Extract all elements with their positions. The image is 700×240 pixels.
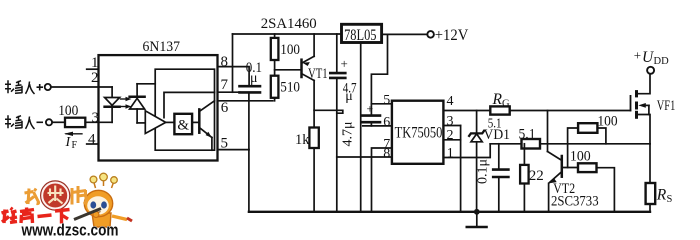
wire TK pin3 <box>443 125 460 127</box>
wire amp to AND gate <box>166 121 175 123</box>
svg-text:78L05: 78L05 <box>344 27 377 44</box>
svg-text:6: 6 <box>221 100 229 116</box>
opto 6N137 outer box <box>99 55 218 160</box>
svg-text:F: F <box>72 140 78 151</box>
light arrows <box>121 97 132 109</box>
svg-text:VF1: VF1 <box>657 98 676 114</box>
resistor 100 (VT1 bias upper) <box>271 34 279 76</box>
svg-text:1: 1 <box>447 146 454 161</box>
svg-text:1: 1 <box>91 55 99 71</box>
wire cap bottom to pin5 line <box>248 92 250 149</box>
opto output transistor <box>199 101 214 150</box>
watermark logo <box>2 173 133 239</box>
svg-text:100: 100 <box>280 42 300 58</box>
watermark mascot <box>74 173 132 227</box>
feedback wire <box>164 92 215 117</box>
wire 12V drop to TK pin5 <box>371 34 387 115</box>
wire pin6 to 510 <box>218 100 273 102</box>
wire pin8 right <box>218 67 250 85</box>
svg-text:4.7μ: 4.7μ <box>341 121 356 146</box>
label input- (drawn glyphs for CJK) <box>5 115 43 129</box>
AND gate box <box>174 114 192 134</box>
svg-text:R: R <box>656 187 667 204</box>
svg-text:VT1: VT1 <box>308 66 328 82</box>
svg-text:100: 100 <box>597 114 617 130</box>
arrow IF <box>64 132 82 136</box>
wire sense line right / source line <box>540 143 650 145</box>
capacitor 4.7u (TK pins 5-6) <box>363 116 380 126</box>
svg-text:100: 100 <box>570 149 591 165</box>
wire TK pin2 <box>443 139 460 141</box>
label input+ (drawn glyphs for CJK) <box>5 80 43 94</box>
wire TK pin4 <box>443 110 490 112</box>
+12V terminal <box>427 31 434 38</box>
svg-text:22: 22 <box>529 168 544 184</box>
resistor 5.1 (sense) <box>522 139 541 149</box>
capacitor 0.1u (opto) <box>240 86 261 92</box>
svg-text:6N137: 6N137 <box>143 39 181 55</box>
svg-text:+12V: +12V <box>435 27 469 44</box>
svg-text:S: S <box>667 194 673 205</box>
wire TK pin7 to ground <box>372 148 392 212</box>
resistor 510 <box>271 76 279 101</box>
svg-text:0.1μ: 0.1μ <box>476 159 491 184</box>
svg-text:www.dzsc.com: www.dzsc.com <box>21 222 119 239</box>
capacitor 4.7u (electrolytic at 5V rail) <box>330 34 345 212</box>
svg-text:+: + <box>634 48 641 63</box>
svg-text:&: & <box>177 117 189 133</box>
svg-text:2SC3733: 2SC3733 <box>551 193 599 209</box>
wire TK pin8 <box>337 156 392 158</box>
amplifier triangle <box>145 111 165 134</box>
svg-text:100: 100 <box>58 103 78 119</box>
wire Vcc rail down to pin7 line <box>232 34 234 92</box>
svg-text:5: 5 <box>383 93 390 108</box>
watermark text pian (chip) <box>72 186 86 205</box>
resistor 100 (lower, base-gnd) <box>578 163 614 212</box>
wire TK pin5 <box>371 103 392 105</box>
svg-text:+: + <box>341 56 348 71</box>
watermark text weiku yixia (red) <box>2 208 70 224</box>
capacitor 0.1u (sense) <box>493 144 508 212</box>
pin 1 stub <box>87 68 99 70</box>
opto inner box <box>155 69 214 150</box>
svg-text:R: R <box>492 91 503 108</box>
input+ terminal <box>45 84 51 90</box>
wire top rail left <box>233 33 342 35</box>
svg-text:3: 3 <box>92 110 100 126</box>
pin 4 stub <box>87 143 99 145</box>
wire VT2 base <box>562 167 578 169</box>
svg-text:510: 510 <box>280 79 300 95</box>
wire 78L05 ground <box>360 43 362 212</box>
svg-text:TK75050: TK75050 <box>395 125 443 142</box>
+UDD terminal <box>647 67 654 74</box>
resistor 100 (upper, base-source) <box>568 123 606 167</box>
svg-text:VD1: VD1 <box>484 127 511 143</box>
resistor RS <box>646 144 656 212</box>
svg-text:DD: DD <box>654 56 670 67</box>
resistor RG <box>490 106 509 114</box>
wire TK pin6 <box>363 125 392 127</box>
svg-text:8: 8 <box>383 146 390 161</box>
watermark magnifier with chip char <box>41 181 70 210</box>
wire input- to resistor <box>52 121 65 123</box>
svg-text:7: 7 <box>221 77 229 93</box>
transistor VT2 2SC3733 <box>548 152 562 212</box>
wire opto ground drop <box>248 150 250 212</box>
watermark text zhao (find) <box>25 189 39 205</box>
svg-text:2: 2 <box>91 70 99 86</box>
svg-text:6: 6 <box>383 115 390 130</box>
svg-text:8: 8 <box>221 54 229 70</box>
wire resistor to pin3 / LED cathode <box>85 121 112 123</box>
photodiode <box>130 84 156 123</box>
ground symbol <box>467 212 487 227</box>
wire TK pin1 to sense node <box>443 144 490 158</box>
svg-text:2SA1460: 2SA1460 <box>261 16 317 32</box>
wire pin5 <box>218 149 249 151</box>
resistor 1k <box>309 128 318 212</box>
wire sense line left <box>490 143 521 145</box>
svg-text:+: + <box>367 102 374 116</box>
resistor 100 (input) <box>65 118 85 127</box>
svg-text:4: 4 <box>447 94 454 109</box>
input- terminal <box>46 119 52 125</box>
wire TK pins 3-2 ground <box>460 126 462 212</box>
wire pin7 to cap <box>218 91 241 93</box>
svg-text:4: 4 <box>88 131 96 147</box>
svg-text:5: 5 <box>221 136 229 152</box>
resistor 22 <box>520 144 529 212</box>
ground rail <box>249 211 650 213</box>
MOSFET VF1 <box>631 74 651 144</box>
wire base VT1 <box>275 69 302 71</box>
transistor VT1 2SA1460 <box>302 34 315 128</box>
wire top rail right to +12V <box>382 33 428 35</box>
zener diode VD1 <box>469 111 484 212</box>
svg-text:1k: 1k <box>295 132 310 148</box>
wire gate to transistor base <box>192 121 199 123</box>
svg-text:G: G <box>502 99 510 110</box>
svg-text:2: 2 <box>447 128 454 143</box>
wire gate to VT2 collector <box>547 111 549 152</box>
svg-text:3: 3 <box>447 114 454 129</box>
LED (opto input) <box>105 87 120 122</box>
wire VT1 collector to TK branch <box>314 110 343 113</box>
wire input+ to pin2 / LED anode <box>51 86 112 88</box>
svg-text:μ: μ <box>345 89 353 104</box>
wire gate line <box>510 110 631 112</box>
svg-text:μ: μ <box>250 71 258 86</box>
IC TK75050 <box>392 101 444 164</box>
regulator 78L05 <box>342 24 382 42</box>
svg-text:5.1: 5.1 <box>519 127 536 143</box>
junction dot ground <box>474 209 480 215</box>
